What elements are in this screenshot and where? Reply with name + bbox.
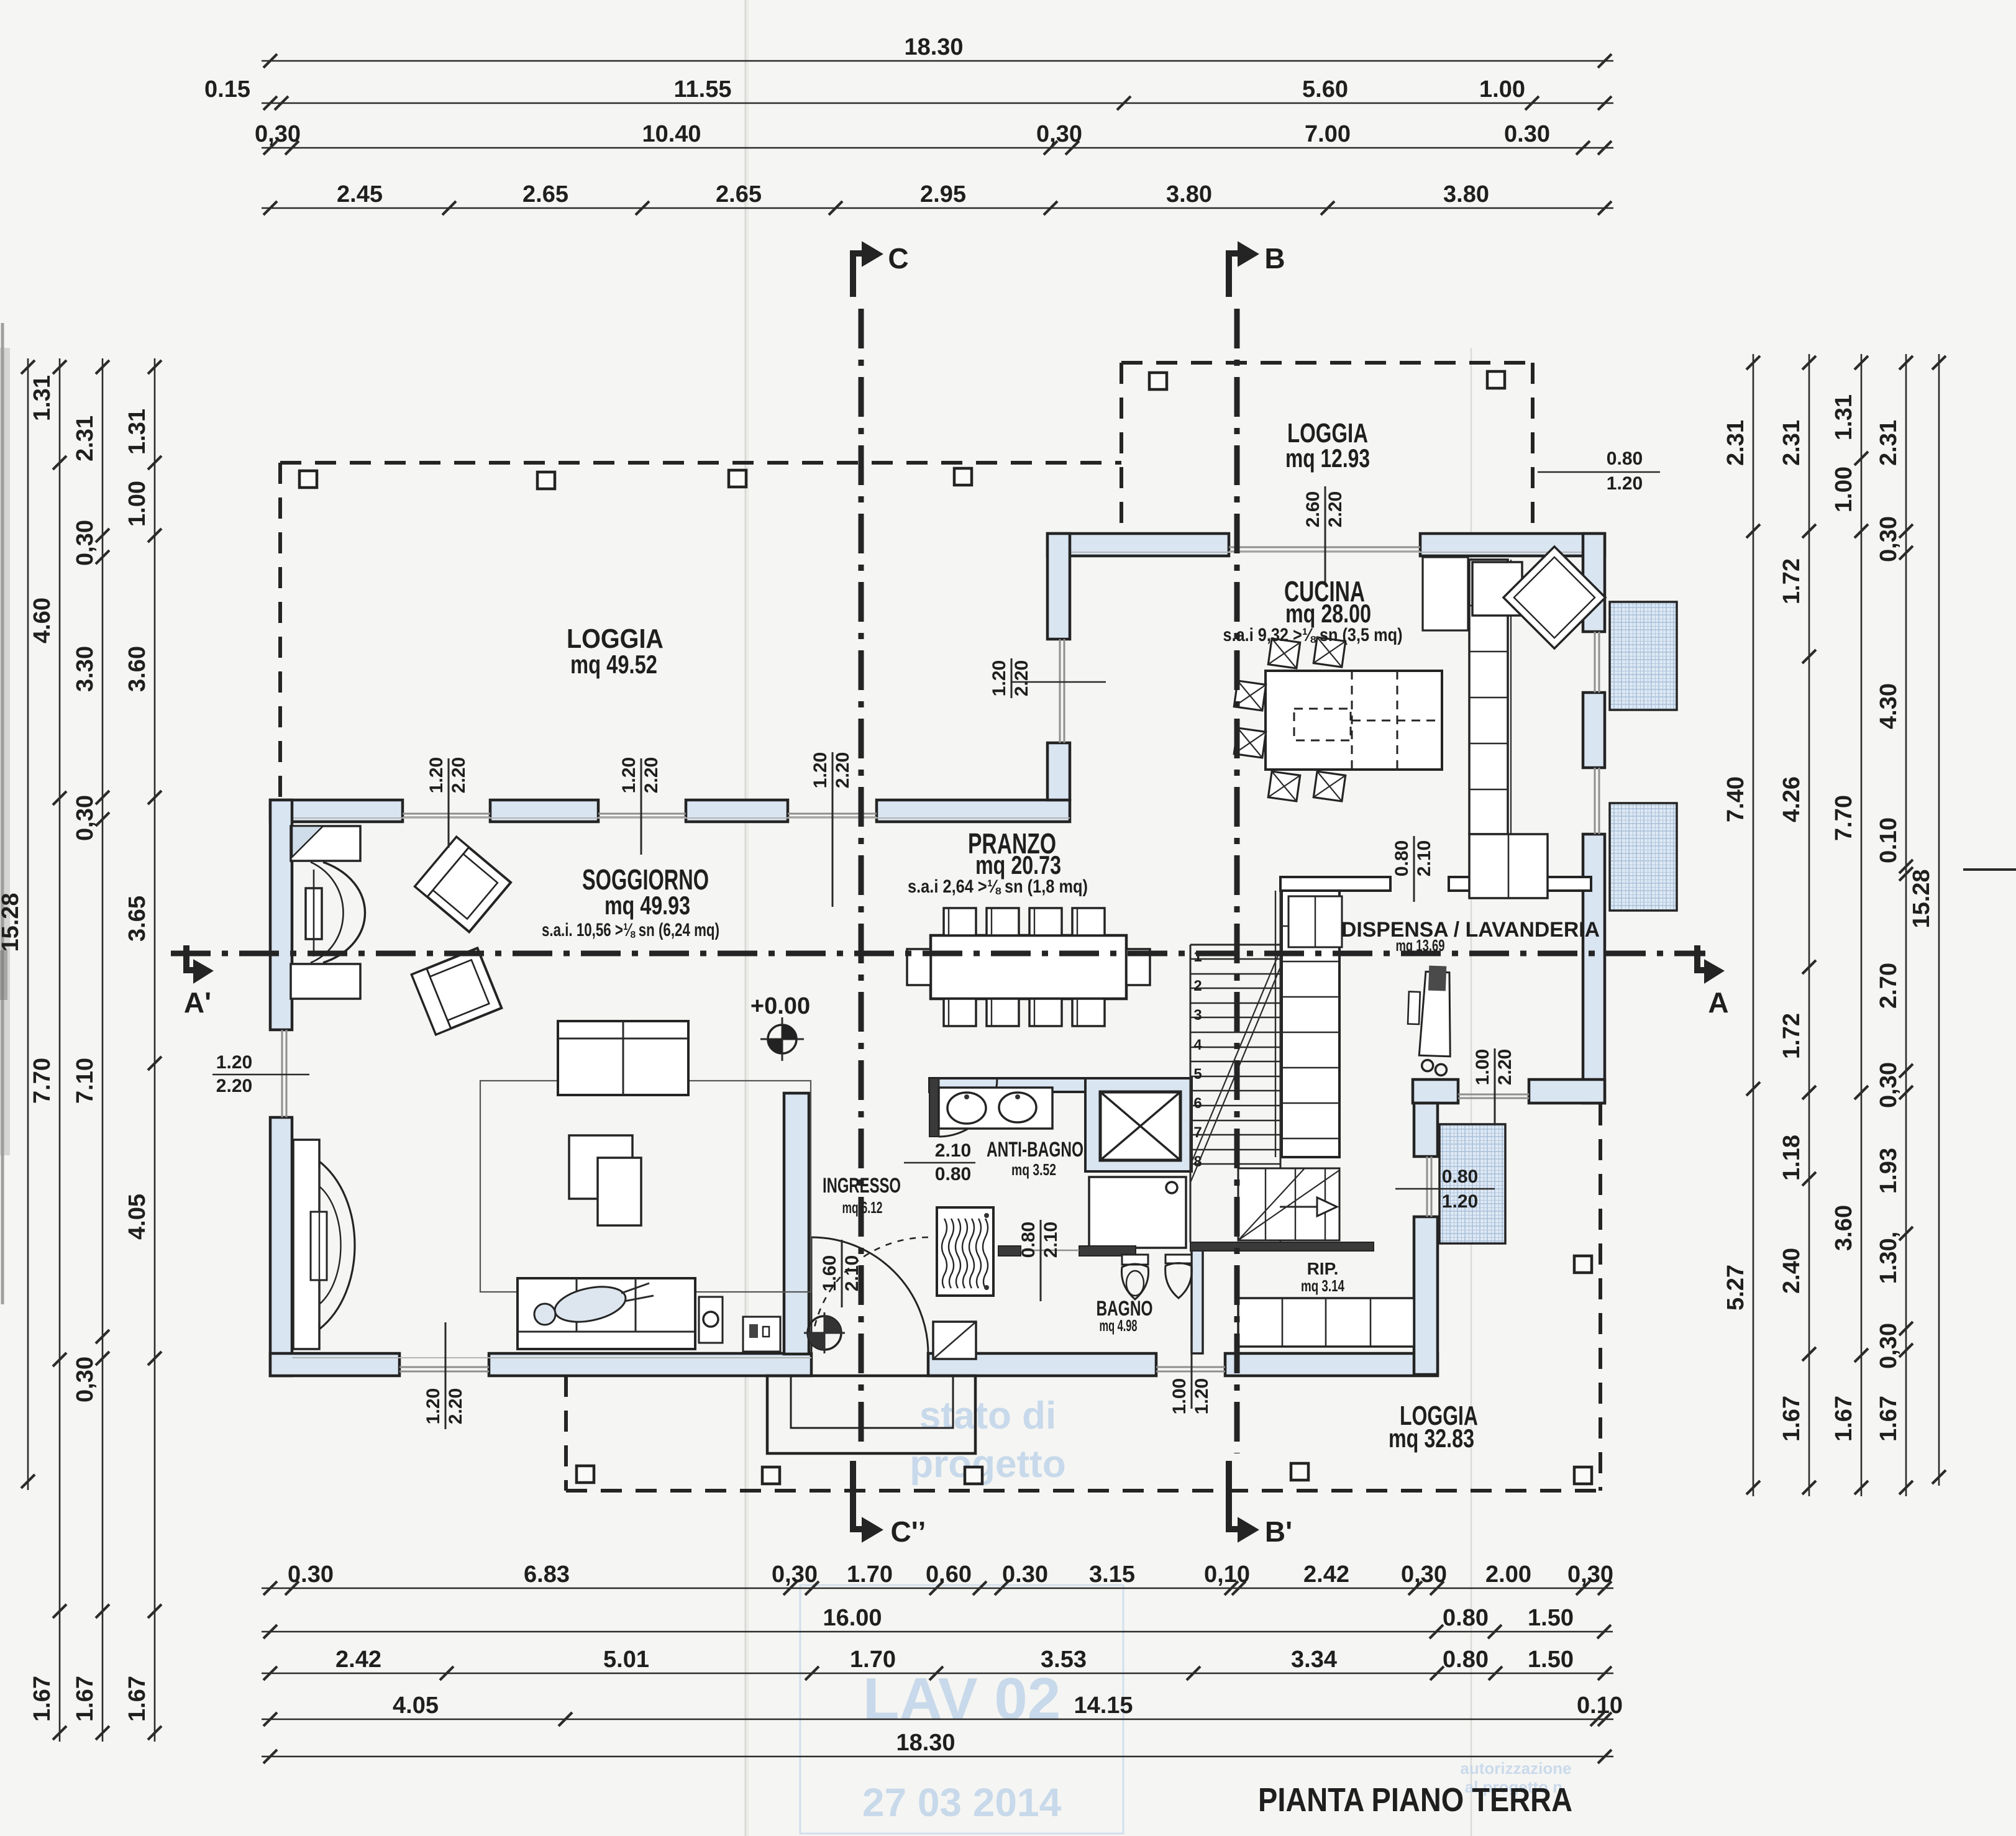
svg-text:mq 4.98: mq 4.98 (1100, 1316, 1138, 1335)
svg-text:4.30: 4.30 (1876, 683, 1902, 729)
svg-text:2.31: 2.31 (1779, 420, 1805, 466)
svg-text:0,30: 0,30 (1036, 121, 1082, 147)
svg-text:2.20: 2.20 (216, 1076, 252, 1096)
svg-text:27 03 2014: 27 03 2014 (862, 1780, 1062, 1825)
svg-text:1.67: 1.67 (72, 1676, 98, 1722)
svg-text:2.40: 2.40 (1779, 1248, 1805, 1294)
svg-text:2.65: 2.65 (716, 181, 762, 207)
svg-text:1.00: 1.00 (124, 481, 150, 527)
svg-text:1.31: 1.31 (29, 375, 55, 421)
svg-text:mq 32.83: mq 32.83 (1389, 1424, 1474, 1453)
svg-text:2.95: 2.95 (920, 181, 966, 207)
svg-text:7: 7 (1193, 1124, 1202, 1141)
svg-text:5: 5 (1193, 1066, 1202, 1083)
svg-text:0,30: 0,30 (1876, 1323, 1902, 1369)
svg-text:2.60: 2.60 (1303, 491, 1323, 527)
svg-text:2.20: 2.20 (641, 757, 662, 793)
svg-text:2.20: 2.20 (1495, 1049, 1515, 1085)
svg-text:A: A (1708, 986, 1728, 1019)
svg-text:1.67: 1.67 (29, 1676, 55, 1722)
svg-text:0,30: 0,30 (1567, 1561, 1613, 1588)
svg-text:2.42: 2.42 (335, 1647, 381, 1673)
svg-text:2.10: 2.10 (842, 1255, 862, 1291)
svg-text:1.72: 1.72 (1779, 558, 1805, 604)
svg-text:LAV 02: LAV 02 (863, 1666, 1060, 1732)
svg-text:2.65: 2.65 (522, 181, 568, 207)
svg-text:0,30: 0,30 (255, 121, 301, 147)
svg-text:3.30: 3.30 (72, 646, 98, 692)
svg-text:0.60: 0.60 (926, 1561, 972, 1588)
svg-text:2.10: 2.10 (1414, 840, 1434, 876)
svg-text:0,30: 0,30 (1876, 516, 1902, 562)
svg-text:1.20: 1.20 (216, 1052, 252, 1073)
svg-text:2.20: 2.20 (832, 752, 853, 788)
svg-text:7.40: 7.40 (1723, 776, 1749, 822)
svg-text:1.20: 1.20 (1442, 1191, 1478, 1212)
svg-text:A': A' (184, 986, 211, 1019)
svg-text:1.30,: 1.30, (1876, 1232, 1902, 1284)
svg-text:+0.00: +0.00 (750, 993, 810, 1019)
svg-text:1.00: 1.00 (1479, 76, 1525, 102)
svg-text:1.67: 1.67 (1779, 1396, 1805, 1442)
svg-text:1.00: 1.00 (1472, 1049, 1493, 1085)
svg-text:4.05: 4.05 (124, 1194, 150, 1240)
svg-text:0.80: 0.80 (1392, 840, 1412, 876)
svg-text:mq 3.14: mq 3.14 (1301, 1276, 1344, 1295)
svg-text:0.80: 0.80 (1442, 1166, 1478, 1187)
svg-text:0,30: 0,30 (1876, 1062, 1902, 1108)
svg-text:0,30: 0,30 (72, 1357, 98, 1402)
svg-text:2.31: 2.31 (1876, 420, 1902, 466)
svg-text:5.27: 5.27 (1723, 1265, 1749, 1311)
svg-text:4.26: 4.26 (1779, 776, 1805, 822)
svg-text:7.70: 7.70 (1831, 795, 1857, 841)
svg-text:RIP.: RIP. (1307, 1259, 1339, 1278)
svg-text:2.31: 2.31 (72, 416, 98, 461)
svg-text:mq 6.12: mq 6.12 (842, 1198, 883, 1217)
svg-text:6.83: 6.83 (524, 1561, 570, 1588)
svg-text:PIANTA PIANO TERRA: PIANTA PIANO TERRA (1258, 1781, 1572, 1819)
svg-text:s.a.i 2,64 >⅛ sn (1,8 mq): s.a.i 2,64 >⅛ sn (1,8 mq) (908, 876, 1088, 897)
svg-text:1.20: 1.20 (810, 752, 831, 788)
svg-text:1.67: 1.67 (1876, 1396, 1902, 1442)
svg-text:5.60: 5.60 (1302, 76, 1348, 102)
svg-text:0.80: 0.80 (1018, 1222, 1039, 1258)
svg-text:2.20: 2.20 (1011, 660, 1032, 696)
svg-text:mq 13.69: mq 13.69 (1396, 936, 1445, 955)
svg-text:4.60: 4.60 (29, 598, 55, 643)
svg-text:2.42: 2.42 (1303, 1561, 1349, 1588)
svg-text:1.70: 1.70 (850, 1647, 896, 1673)
svg-text:C'’: C'’ (891, 1516, 926, 1548)
svg-text:2.31: 2.31 (1723, 420, 1749, 466)
svg-text:1.20: 1.20 (1607, 473, 1643, 494)
svg-text:mq 20.73: mq 20.73 (975, 850, 1061, 879)
svg-text:0.15: 0.15 (204, 76, 250, 102)
svg-text:2.10: 2.10 (935, 1140, 971, 1161)
svg-text:3: 3 (1193, 1007, 1202, 1024)
svg-text:1.31: 1.31 (1831, 394, 1857, 440)
svg-text:1.20: 1.20 (989, 660, 1010, 696)
svg-text:1.93: 1.93 (1876, 1148, 1902, 1194)
svg-text:0.80: 0.80 (1607, 448, 1643, 469)
svg-text:C: C (888, 242, 908, 275)
svg-text:INGRESSO: INGRESSO (823, 1174, 901, 1197)
svg-text:7.70: 7.70 (29, 1058, 55, 1104)
svg-text:1.00: 1.00 (1831, 466, 1857, 512)
svg-text:2.10: 2.10 (1041, 1222, 1061, 1258)
svg-text:1.60: 1.60 (819, 1255, 840, 1291)
svg-text:DISPENSA / LAVANDERIA: DISPENSA / LAVANDERIA (1341, 918, 1600, 942)
svg-text:B: B (1264, 242, 1285, 275)
svg-text:0.30: 0.30 (288, 1561, 334, 1588)
svg-text:3.80: 3.80 (1166, 181, 1212, 207)
svg-text:7.10: 7.10 (72, 1058, 98, 1104)
svg-text:15.28: 15.28 (1909, 869, 1935, 928)
svg-text:0,30: 0,30 (72, 795, 98, 841)
svg-text:B': B' (1265, 1516, 1292, 1548)
svg-text:3.80: 3.80 (1443, 181, 1489, 207)
svg-text:stato di: stato di (919, 1394, 1056, 1437)
svg-text:6: 6 (1193, 1095, 1202, 1112)
svg-text:mq 49.93: mq 49.93 (604, 891, 690, 920)
svg-text:1.00: 1.00 (1169, 1378, 1190, 1414)
svg-text:4: 4 (1193, 1037, 1202, 1053)
svg-text:2.45: 2.45 (337, 181, 383, 207)
svg-text:16.00: 16.00 (823, 1605, 882, 1631)
svg-text:mq 28.00: mq 28.00 (1285, 599, 1371, 628)
svg-text:1.31: 1.31 (124, 409, 150, 455)
svg-text:1.70: 1.70 (847, 1561, 893, 1588)
svg-text:0.30: 0.30 (1504, 121, 1550, 147)
svg-text:0,10: 0,10 (1204, 1561, 1250, 1588)
svg-text:2.00: 2.00 (1485, 1561, 1531, 1588)
svg-text:7.00: 7.00 (1305, 121, 1351, 147)
svg-text:4.05: 4.05 (393, 1693, 439, 1719)
svg-text:1.20: 1.20 (423, 1388, 444, 1424)
svg-text:s.a.i 9,32 >⅛ sn (3,5 mq): s.a.i 9,32 >⅛ sn (3,5 mq) (1223, 625, 1403, 645)
svg-text:1.18: 1.18 (1779, 1135, 1805, 1181)
svg-text:14.15: 14.15 (1074, 1693, 1133, 1719)
svg-text:0.80: 0.80 (935, 1164, 971, 1184)
svg-text:3.15: 3.15 (1089, 1561, 1135, 1588)
svg-text:2: 2 (1193, 978, 1202, 994)
svg-text:0,30: 0,30 (772, 1561, 818, 1588)
svg-text:3.60: 3.60 (1831, 1205, 1857, 1251)
svg-text:3.34: 3.34 (1291, 1647, 1337, 1673)
svg-text:3.65: 3.65 (124, 896, 150, 942)
svg-text:2.20: 2.20 (1325, 491, 1346, 527)
svg-text:5.01: 5.01 (603, 1647, 649, 1673)
svg-text:ANTI-BAGNO: ANTI-BAGNO (987, 1138, 1083, 1161)
svg-text:0.10: 0.10 (1577, 1693, 1623, 1719)
svg-text:mq 3.52: mq 3.52 (1011, 1160, 1056, 1179)
svg-text:1.72: 1.72 (1779, 1013, 1805, 1059)
svg-text:0,30: 0,30 (1401, 1561, 1447, 1588)
svg-text:2.20: 2.20 (449, 757, 469, 793)
svg-text:3.53: 3.53 (1041, 1647, 1087, 1673)
svg-text:s.a.i. 10,56 >⅛ sn (6,24 mq): s.a.i. 10,56 >⅛ sn (6,24 mq) (542, 920, 719, 940)
svg-text:11.55: 11.55 (674, 76, 732, 102)
svg-text:1.20: 1.20 (619, 757, 639, 793)
svg-text:progetto: progetto (910, 1443, 1065, 1486)
svg-text:0.10: 0.10 (1876, 817, 1902, 863)
svg-text:3.60: 3.60 (124, 646, 150, 692)
svg-text:1.67: 1.67 (124, 1676, 150, 1722)
svg-text:0.30: 0.30 (1002, 1561, 1048, 1588)
svg-text:mq 12.93: mq 12.93 (1285, 443, 1370, 473)
svg-text:2.20: 2.20 (445, 1388, 466, 1424)
svg-text:15.28: 15.28 (0, 893, 24, 952)
svg-text:autorizzazione: autorizzazione (1460, 1759, 1571, 1778)
svg-text:0.80: 0.80 (1443, 1647, 1489, 1673)
svg-text:0,30: 0,30 (72, 520, 98, 566)
svg-text:0.80: 0.80 (1443, 1605, 1489, 1631)
svg-text:1.50: 1.50 (1528, 1647, 1574, 1673)
svg-text:1.50: 1.50 (1528, 1605, 1574, 1631)
svg-text:mq 49.52: mq 49.52 (570, 650, 657, 679)
svg-text:1.67: 1.67 (1831, 1396, 1857, 1442)
svg-text:2.70: 2.70 (1876, 963, 1902, 1009)
svg-text:1.20: 1.20 (1192, 1378, 1212, 1414)
svg-text:18.30: 18.30 (904, 34, 963, 60)
svg-text:18.30: 18.30 (896, 1730, 955, 1756)
svg-text:1.20: 1.20 (426, 757, 447, 793)
svg-text:10.40: 10.40 (642, 121, 701, 147)
